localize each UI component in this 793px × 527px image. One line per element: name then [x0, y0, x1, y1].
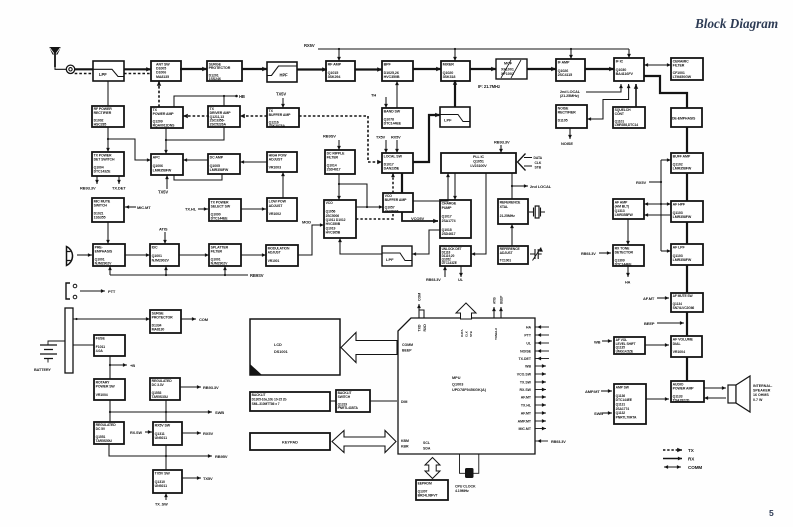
svg-text:DS1001: DS1001 [274, 350, 288, 354]
wire RFAMP-BPF [355, 67, 382, 71]
wire ATIS up [492, 307, 496, 318]
svg-text:LMR358FW: LMR358FW [210, 168, 229, 172]
AF vol level shift Q1135 [614, 337, 645, 354]
svg-text:STB: STB [469, 330, 473, 337]
PLL IC Q1051 [441, 153, 516, 173]
wire BUF-DRV dashed [240, 114, 267, 118]
TX5V switch Q1310 [153, 470, 182, 493]
wire DRV-TXPA dashed [183, 114, 209, 118]
wire IFIC-CF comm [644, 63, 671, 67]
svg-text:LMR358FW: LMR358FW [673, 215, 692, 219]
svg-text:LTM450GW: LTM450GW [673, 75, 692, 79]
svg-text:UMG14.5ZE: UMG14.5ZE [616, 349, 634, 353]
svg-text:TX_SW: TX_SW [155, 503, 168, 507]
wire rx5vsw down [165, 445, 167, 470]
svg-text:IF AMP: IF AMP [558, 61, 570, 65]
splatter filter Q1001 [209, 244, 241, 266]
wire pamp to speaker lo [704, 396, 726, 400]
MCF glyph text [501, 60, 521, 78]
wire fuse to rotary [109, 356, 111, 379]
svg-text:XF1002: XF1002 [501, 72, 514, 76]
svg-text:IDC: IDC [152, 246, 158, 250]
regulator 3.3V Q1553 [150, 378, 180, 400]
svg-text:RECTIFIER: RECTIFIER [558, 110, 577, 114]
svg-text:+B: +B [130, 363, 135, 368]
svg-text:TX.DET: TX.DET [519, 357, 532, 361]
mic mute switch D1021 [92, 198, 124, 222]
wire pamp to speaker hi [704, 386, 726, 390]
VCO buffer amp Q1057 [383, 193, 413, 213]
wire IDC to splatter [179, 253, 209, 257]
wire HIPOW to DCamp [240, 160, 267, 164]
wire charge pump to LPF pll [412, 230, 440, 256]
wire reg33 down [165, 400, 167, 412]
svg-text:SWB: SWB [215, 410, 224, 415]
svg-text:TH: TH [371, 92, 376, 97]
svg-text:BR24L08FVT: BR24L08FVT [418, 494, 439, 498]
wire MIXER-MCF [470, 67, 496, 71]
svg-text:21.25MHz: 21.25MHz [500, 214, 516, 218]
svg-text:NOISE: NOISE [520, 350, 532, 354]
svg-text:2SD4617: 2SD4617 [327, 168, 341, 172]
svg-text:TC1001: TC1001 [500, 259, 512, 263]
wire RB9SV up preemp [108, 266, 112, 275]
svg-text:TONE1-6: TONE1-6 [494, 328, 498, 340]
modulation adjust VR1001 [266, 245, 298, 266]
svg-text:DTC144EE: DTC144EE [615, 262, 633, 266]
svg-text:PLL IC: PLL IC [473, 155, 484, 159]
wire ANTSW-SURGE [180, 67, 207, 71]
svg-text:LPF: LPF [444, 117, 452, 122]
wire preemp to IDC [125, 253, 150, 257]
svg-text:3SK294: 3SK294 [328, 75, 342, 79]
svg-text:Q1017: Q1017 [442, 215, 452, 219]
wire buffamp to afhpf [686, 173, 688, 201]
legend COMM line [664, 465, 681, 469]
svg-text:(21.25MHz): (21.25MHz) [560, 94, 580, 98]
svg-text:UN9211: UN9211 [155, 436, 167, 440]
svg-text:KBM: KBM [401, 439, 409, 443]
svg-text:FILTER: FILTER [211, 249, 223, 253]
wire RB93 into rxtone [599, 251, 611, 255]
svg-text:AMP.MT: AMP.MT [585, 389, 600, 394]
svg-text:COMM: COMM [402, 343, 413, 347]
reference adjust TC1001 [498, 246, 528, 264]
LPF glyph + label [93, 69, 124, 76]
PTT switch [66, 283, 77, 299]
wire RB93 into PLL [499, 145, 503, 153]
svg-text:5: 5 [769, 508, 774, 518]
svg-text:LPF: LPF [99, 72, 107, 77]
wire bar to surge [73, 317, 150, 321]
svg-text:0.7 W: 0.7 W [753, 398, 763, 402]
legend RX line [663, 457, 682, 461]
DATA CLK STB bus arrow into PLL [518, 154, 526, 171]
wire rail to aflpf [661, 249, 671, 253]
svg-text:DC 3.3V: DC 3.3V [152, 383, 165, 387]
AF mute switch Q1134 [671, 293, 703, 312]
wire afamp hpf upper [644, 202, 671, 206]
wire RX5V drop RF amp [337, 49, 341, 61]
wire PLL to charge pump [453, 173, 457, 200]
svg-text:DTC143ZE: DTC143ZE [94, 169, 111, 173]
svg-text:MA8130: MA8130 [152, 327, 165, 331]
svg-text:TX.HL: TX.HL [521, 404, 532, 408]
wire VCO to buffer TX dashed [356, 212, 393, 219]
svg-text:NJM2902V: NJM2902V [152, 259, 170, 263]
wire LPF down to rectifier [107, 81, 109, 106]
svg-text:HPF: HPF [280, 72, 289, 77]
wire ANTSW down TX dashed [157, 81, 161, 107]
wire localsw to LPF local thick [413, 113, 440, 162]
svg-text:DTC144EE: DTC144EE [384, 121, 402, 125]
svg-text:DIM: DIM [401, 400, 408, 404]
wire RX5V drop mixer [453, 49, 457, 61]
wire SURGE-HPF [242, 67, 267, 71]
svg-text:2SD4617: 2SD4617 [442, 232, 456, 236]
RX5V switch Q1311 [153, 422, 182, 445]
svg-text:LMR358,DTC14: LMR358,DTC14 [615, 123, 639, 127]
RF power rectifier D1002 [92, 106, 124, 127]
svg-text:POWER AMP: POWER AMP [153, 112, 175, 116]
svg-text:ATIS: ATIS [493, 297, 497, 304]
wire buffer bottom to charge pump [402, 212, 438, 223]
svg-text:MIC.MT: MIC.MT [137, 205, 151, 210]
EEPROM Q1307 [416, 480, 448, 500]
svg-text:TX.DET: TX.DET [112, 186, 126, 191]
wire afamp to rxtone [626, 219, 630, 245]
svg-text:MA8135: MA8135 [156, 75, 169, 79]
mixer Q1020 [441, 61, 470, 81]
svg-text:TX5V: TX5V [376, 136, 386, 140]
svg-text:Block Diagram: Block Diagram [694, 16, 778, 31]
wire ant-conn [55, 67, 66, 69]
svg-text:RF AMP: RF AMP [328, 63, 342, 67]
speaker SP1 [728, 376, 750, 412]
antenna ANT [49, 47, 61, 67]
wire RB9SV up IDC [164, 266, 168, 275]
svg-text:LV23100V: LV23100V [470, 164, 487, 168]
wire TXdet stub [117, 176, 121, 184]
wire mic to preemphasis [77, 253, 92, 257]
svg-text:BAND SW: BAND SW [384, 109, 401, 113]
svg-text:HSC285: HSC285 [94, 122, 107, 126]
wire MCF-IFAMP [527, 67, 556, 71]
svg-text:HA: HA [625, 281, 631, 285]
svg-text:BEEP: BEEP [500, 295, 504, 304]
unlock detector Q1052 [440, 246, 471, 266]
svg-text:POWER AMP: POWER AMP [673, 386, 695, 390]
svg-text:RX5V SW: RX5V SW [155, 424, 171, 428]
surge protector D1334 [150, 310, 181, 333]
svg-text:VR1004: VR1004 [673, 350, 685, 354]
LPF pll glyph [382, 253, 412, 261]
svg-text:AMP SW: AMP SW [616, 385, 630, 389]
APC Q1006 [151, 154, 183, 175]
svg-text:Q1003: Q1003 [452, 383, 463, 387]
svg-text:TX.SW: TX.SW [520, 381, 532, 385]
wire noise out [568, 128, 572, 139]
de-emphasis [671, 108, 702, 127]
wire RX5V rail [318, 48, 629, 50]
svg-text:DC AMP: DC AMP [210, 156, 224, 160]
wire BEEP join [657, 321, 684, 325]
svg-text:PTT: PTT [524, 334, 531, 338]
wire DCamp to APC [183, 158, 208, 162]
wire rail to buffamp [661, 158, 671, 162]
svg-text:DAN235E: DAN235E [384, 167, 400, 171]
charge pump Q1017 [440, 200, 471, 238]
svg-text:ADJUST: ADJUST [268, 251, 282, 255]
buffer amp Q1102 [671, 153, 703, 173]
wire noise rect to IFIC [587, 84, 631, 121]
svg-text:WB: WB [594, 339, 601, 344]
wire 2nd local out [512, 184, 528, 188]
svg-text:TAR5S50U: TAR5S50U [96, 439, 113, 443]
wire conn-LPF TX dashed [75, 73, 93, 75]
wire rectifier to APC [108, 139, 151, 162]
wire +B out [110, 363, 127, 367]
wire TX5V out [182, 476, 201, 480]
svg-text:CPU CLOCK: CPU CLOCK [455, 485, 476, 489]
TX power select switch Q1090 [209, 199, 241, 221]
svg-text:LMR358FW: LMR358FW [673, 167, 692, 171]
crystal symbol X1001 [529, 206, 545, 218]
svg-text:HA: HA [526, 326, 532, 330]
wire reg5 down [109, 444, 166, 456]
AF HPF Q1103 [671, 201, 703, 222]
svg-text:RB93.3V: RB93.3V [426, 278, 441, 282]
svg-text:COM: COM [418, 293, 422, 301]
svg-text:DET SWITCH: DET SWITCH [94, 157, 115, 161]
wire RXD bracket [419, 310, 424, 318]
TX power det switch Q1004 [92, 152, 124, 176]
wire dial to power amp [686, 357, 688, 381]
wire xtal to ref adjust [510, 224, 514, 246]
svg-text:LMR358FW: LMR358FW [673, 258, 692, 262]
wire buffer to PLL [413, 173, 450, 201]
svg-text:XTAL: XTAL [500, 205, 509, 209]
svg-text:XF1001: XF1001 [501, 68, 514, 72]
svg-text:DATA: DATA [460, 329, 464, 337]
wire ampsw to pamp [646, 397, 669, 401]
wire HB rail [174, 96, 237, 107]
band pass filter BPF [382, 61, 413, 81]
CPU clock crystal X1002 [460, 454, 479, 478]
svg-text:FUSE: FUSE [96, 337, 106, 341]
svg-text:1SS246: 1SS246 [209, 77, 221, 81]
wire RB9SV into ripple [337, 140, 341, 150]
svg-text:LCD: LCD [274, 343, 282, 347]
regulator 5V Q1551 [94, 422, 124, 444]
svg-text:TX.HL: TX.HL [185, 207, 197, 212]
wire RX5V out [182, 431, 201, 435]
AF LPF Q1103 [671, 244, 703, 265]
wire backlit link [330, 400, 336, 402]
svg-text:BPF: BPF [384, 63, 392, 67]
wire afhpf to aflpf [686, 222, 688, 244]
svg-text:SN74LVC2G66: SN74LVC2G66 [673, 306, 695, 310]
svg-text:BA4116FV: BA4116FV [616, 72, 634, 76]
wire modadj to VCO MOD [298, 223, 324, 255]
backlight switch Q1319 [336, 390, 370, 412]
svg-text:RX5V: RX5V [304, 43, 315, 48]
svg-text:PROTECTOR: PROTECTOR [209, 66, 231, 70]
wire conn-LPF RX [75, 68, 93, 70]
svg-text:UN9211: UN9211 [155, 484, 167, 488]
wire select to lowpow [241, 207, 266, 211]
antenna switch ANT SW [151, 61, 181, 81]
svg-text:AF.MT: AF.MT [521, 412, 532, 416]
wire rotary to reg5 [109, 400, 111, 422]
wire TXdet RB93 stub [95, 176, 99, 184]
fuse F1011 [94, 335, 125, 356]
svg-text:PTT: PTT [108, 289, 116, 294]
LPF local glyph [440, 115, 470, 122]
svg-text:PNRTL70RTA: PNRTL70RTA [616, 415, 637, 419]
wire PLL to xtal [511, 173, 513, 199]
svg-text:PNRTL41BTA: PNRTL41BTA [338, 406, 359, 410]
wire HPF-RFAMP [297, 67, 327, 71]
svg-text:ADJUST: ADJUST [269, 158, 284, 162]
svg-text:RB93.3V: RB93.3V [551, 440, 566, 444]
audio power amp Q1133 [671, 381, 704, 402]
svg-text:MPU: MPU [452, 376, 461, 380]
svg-text:RB9SV: RB9SV [250, 273, 264, 278]
svg-text:BACKLIT: BACKLIT [252, 393, 266, 397]
amp switch Q1136 [614, 384, 646, 424]
svg-text:VCO.SW: VCO.SW [517, 373, 532, 377]
svg-text:RX.SW: RX.SW [520, 388, 532, 392]
svg-text:SML-310MTT86 x 7: SML-310MTT86 x 7 [252, 402, 280, 406]
AF volume dial VR1004 [671, 336, 702, 357]
wire rectifier down [106, 127, 110, 152]
IF amp Q1026 [556, 59, 585, 81]
svg-text:2SA1774: 2SA1774 [442, 219, 456, 223]
wire LPF pll to VCO [338, 238, 382, 254]
svg-text:DC 5V: DC 5V [96, 427, 106, 431]
svg-text:CHARGE: CHARGE [442, 201, 457, 205]
svg-text:RQA0011DNS: RQA0011DNS [153, 123, 176, 127]
DC ripple filter Q1014 [325, 150, 355, 174]
wire RB9SV up splatter [223, 266, 227, 275]
wire rxtone HA out [626, 266, 630, 277]
low power adjust VR1002 [267, 198, 297, 221]
wire PLL to unlock det [471, 173, 486, 256]
wire TX path to local sw dashed [299, 116, 382, 164]
wire WB into level shift [602, 339, 612, 343]
svg-text:REFERENCE: REFERENCE [500, 200, 521, 204]
IDC Q1001 [150, 244, 179, 266]
wire squelch cont to IFIC [634, 84, 638, 107]
wire RX5V label join [649, 181, 661, 183]
TX driver amp Q1211 [208, 106, 240, 127]
wire HB drop driver [223, 96, 225, 106]
svg-text:2SK3078A: 2SK3078A [269, 124, 286, 128]
wire TX5V into APC [165, 175, 169, 189]
svg-text:LPF: LPF [386, 257, 394, 262]
svg-text:VR1004: VR1004 [96, 393, 108, 397]
svg-text:D1305-10a,10b 10-15 2b: D1305-10a,10b 10-15 2b [252, 398, 287, 402]
RF amp Q1015 [326, 61, 355, 81]
svg-text:DIAL: DIAL [673, 342, 682, 346]
wire buffer to localsw thick [401, 173, 403, 193]
svg-text:VR1001: VR1001 [268, 259, 280, 263]
wire AF.MT into mute [657, 296, 669, 300]
svg-text:MIXER: MIXER [443, 63, 455, 67]
svg-text:RB95V: RB95V [215, 454, 228, 459]
wire LPF-ANTSW TX dashed [124, 73, 151, 75]
wire level shift to dial [645, 343, 669, 347]
noise rectifier D1105 [556, 105, 587, 128]
svg-text:HVC350B: HVC350B [384, 75, 400, 79]
wire driver bottom join [166, 127, 224, 140]
keypad [250, 433, 330, 450]
svg-text:TX5V: TX5V [203, 476, 213, 481]
svg-text:RX: RX [688, 457, 695, 462]
svg-text:ADJUST: ADJUST [269, 204, 284, 208]
wire VCO to buffer [356, 205, 383, 209]
band switch Q1078 [382, 108, 413, 128]
svg-text:BUFFER AMP: BUFFER AMP [385, 198, 408, 202]
svg-text:RX.SW: RX.SW [130, 431, 142, 435]
MPU Q1003 [398, 318, 535, 454]
svg-text:INTERNAL-: INTERNAL- [753, 384, 773, 388]
svg-text:PROTECTOR: PROTECTOR [152, 315, 174, 319]
wire TXPA bottom to APC [164, 128, 168, 154]
svg-text:NJM2902V: NJM2902V [211, 262, 228, 266]
svg-text:LMR358FW: LMR358FW [615, 213, 634, 217]
wire SWB into ampsw [602, 411, 612, 415]
pin RB93.3V mpu [535, 440, 548, 442]
svg-text:D1105: D1105 [558, 118, 568, 122]
svg-text:SELECT SW: SELECT SW [211, 204, 231, 208]
svg-text:UL: UL [458, 278, 464, 282]
svg-text:TX5V: TX5V [158, 190, 168, 195]
svg-text:4.0A: 4.0A [96, 349, 104, 353]
svg-text:HVC365B: HVC365B [326, 231, 341, 235]
svg-text:SWITCH: SWITCH [338, 395, 351, 399]
reference xtal X1001 [498, 199, 528, 224]
svg-text:AF.MT: AF.MT [643, 296, 655, 301]
svg-text:SDA: SDA [423, 447, 431, 451]
filter LPF antenna [93, 61, 124, 81]
svg-text:EEPROM: EEPROM [418, 481, 432, 485]
wire ripple to vco top [337, 184, 341, 200]
svg-text:CLK: CLK [535, 161, 542, 165]
local switch D1017 [382, 153, 413, 173]
TX power amp Q1209 [151, 107, 183, 128]
svg-text:TX5V: TX5V [276, 92, 286, 97]
legend TX line [663, 448, 682, 452]
svg-text:4.19MHz: 4.19MHz [455, 489, 469, 493]
wire reg33 out [180, 385, 201, 389]
wire SWB rail [110, 410, 212, 414]
svg-text:AF HPF: AF HPF [673, 203, 686, 207]
svg-text:IF: 21.7MHz: IF: 21.7MHz [478, 84, 500, 89]
svg-text:BUFF AMP: BUFF AMP [673, 155, 691, 159]
wire TX5V into localsw [384, 140, 388, 153]
svg-text:TDA2822D: TDA2822D [673, 398, 690, 402]
wire RX5V drop IF IC [627, 49, 631, 58]
IF IC Q1030 [614, 58, 644, 81]
svg-text:RECTIFIER: RECTIFIER [94, 111, 112, 115]
svg-text:FILTER: FILTER [327, 155, 339, 159]
svg-text:WB: WB [525, 365, 531, 369]
svg-text:DE-EMPHASIS: DE-EMPHASIS [672, 117, 696, 121]
svg-text:AF MUTE SW: AF MUTE SW [673, 294, 694, 298]
svg-text:RB93.3V: RB93.3V [494, 140, 510, 145]
